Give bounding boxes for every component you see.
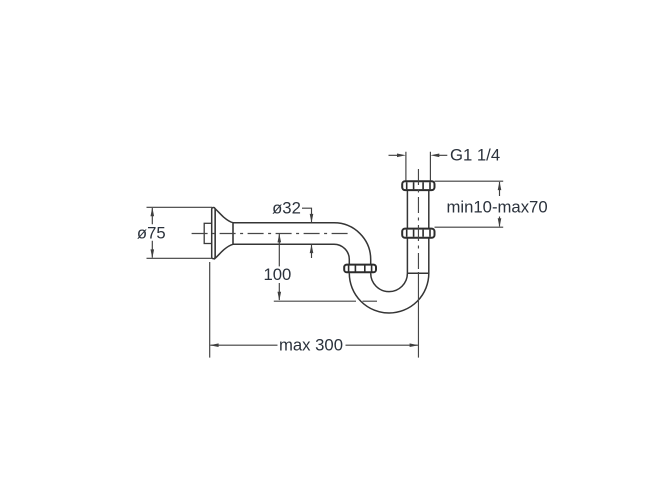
dim min10-max70 arrowheads	[498, 181, 502, 227]
dim min10-max70 arrow stubs	[499, 182, 501, 226]
svg-text:max 300: max 300	[279, 336, 343, 355]
cone-pipe junction line	[232, 223, 234, 244]
dim ø32 arrowheads	[310, 214, 314, 253]
dim max300 left extension line	[209, 262, 211, 358]
svg-text:ø32: ø32	[272, 199, 301, 218]
vertical centerline of inlet pipe	[417, 169, 419, 272]
pipe bottom edge + elbow inner arc + down-leg left edge	[233, 244, 349, 273]
dim max300 arrowheads	[210, 343, 419, 347]
wall pipe stub	[204, 223, 212, 243]
dim G1 1/4 arrow tails	[389, 154, 448, 156]
dim ø32 lower arrow tail	[311, 244, 313, 258]
dim G1 1/4 arrowheads	[397, 154, 439, 158]
dim ø75 arrowheads	[151, 207, 155, 258]
dim 100 arrowheads	[278, 234, 282, 301]
dim min10-max70 extension lines	[435, 181, 504, 227]
upper nut on vertical pipe	[402, 181, 434, 190]
flange bell cone	[215, 209, 233, 259]
U-bend inner arc + right leg left edge	[371, 238, 408, 292]
dim G1 1/4 extension lines	[406, 152, 431, 181]
svg-text:G1 1/4: G1 1/4	[450, 145, 500, 164]
outer tube bottom seam line	[407, 272, 428, 274]
vertical centerline / max300 extension below trap	[417, 272, 419, 358]
wall flange plate	[212, 208, 215, 259]
dim ø75 dimension line	[151, 208, 153, 258]
dim ø75 extension lines	[147, 207, 213, 258]
trap bottom reference line (100 dim)	[274, 300, 356, 302]
dim 100 dimension line	[278, 234, 280, 300]
trap bottom centerline dashes	[363, 300, 378, 302]
vertical pipe between nuts	[407, 190, 428, 229]
svg-text:100: 100	[263, 265, 291, 284]
dim max300 dimension line	[210, 344, 418, 346]
horizontal centerline of outlet pipe	[192, 233, 350, 235]
dim ø32 leader	[302, 208, 312, 222]
lower nut on vertical pipe	[402, 229, 434, 238]
pipe top edge + elbow outer arc + down-leg right edge	[233, 223, 371, 273]
svg-text:min10-max70: min10-max70	[447, 198, 548, 217]
nut on trap down-leg	[344, 265, 376, 273]
U-bend outer arc + right leg right edge	[349, 238, 429, 313]
svg-text:ø75: ø75	[137, 224, 166, 243]
